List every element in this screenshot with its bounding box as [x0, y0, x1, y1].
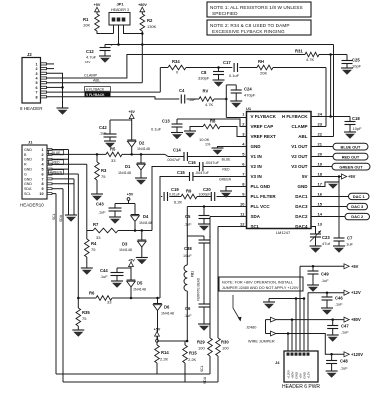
- svg-text:10K: 10K: [83, 23, 90, 28]
- svg-text:DAC 1: DAC 1: [353, 194, 366, 199]
- svg-text:R8: R8: [210, 119, 216, 124]
- svg-text:+5V: +5V: [94, 3, 101, 7]
- svg-text:5: 5: [41, 168, 43, 172]
- svg-text:.0047uF: .0047uF: [205, 161, 220, 165]
- svg-text:CLAMP: CLAMP: [292, 124, 308, 129]
- svg-text:+12V: +12V: [306, 371, 310, 379]
- svg-text:V3 IN: V3 IN: [251, 174, 262, 179]
- svg-text:NOTE 1: ALL RESISTORS 1/8 W U: NOTE 1: ALL RESISTORS 1/8 W UNLESS: [210, 5, 303, 10]
- svg-text:SCL: SCL: [24, 192, 31, 196]
- svg-text:130K: 130K: [147, 24, 157, 29]
- svg-text:GND: GND: [24, 168, 32, 172]
- svg-text:VREF REXT: VREF REXT: [251, 134, 277, 139]
- svg-text:4.7K: 4.7K: [205, 102, 214, 107]
- svg-text:C4: C4: [179, 88, 185, 93]
- svg-text:DAC 3: DAC 3: [351, 204, 364, 209]
- svg-text:13: 13: [318, 221, 323, 226]
- svg-text:.1uF: .1uF: [98, 211, 106, 215]
- svg-text:330pF: 330pF: [198, 76, 210, 81]
- svg-text:J4: J4: [275, 360, 280, 365]
- svg-text:.1uF: .1uF: [99, 132, 107, 136]
- svg-text:23: 23: [318, 121, 323, 126]
- svg-text:+12V: +12V: [351, 290, 361, 295]
- svg-text:WIRE JUMPER: WIRE JUMPER: [248, 340, 275, 344]
- svg-text:10uF: 10uF: [183, 254, 192, 258]
- svg-text:33: 33: [107, 300, 112, 305]
- svg-text:CLAMP: CLAMP: [84, 74, 98, 78]
- svg-text:12: 12: [240, 221, 245, 226]
- svg-text:6: 6: [41, 172, 43, 176]
- svg-text:C15: C15: [177, 170, 185, 175]
- svg-text:ABL: ABL: [298, 134, 307, 139]
- svg-text:75: 75: [91, 247, 96, 252]
- svg-text:SCL: SCL: [200, 365, 204, 372]
- svg-text:4.7uF: 4.7uF: [86, 55, 97, 60]
- svg-text:2.2K: 2.2K: [188, 357, 197, 362]
- svg-text:R14: R14: [161, 350, 169, 355]
- svg-text:FB1: FB1: [191, 271, 195, 277]
- svg-text:C17: C17: [223, 60, 231, 65]
- svg-text:C49: C49: [321, 272, 329, 277]
- svg-text:10.0K: 10.0K: [199, 137, 210, 142]
- svg-text:10pF: 10pF: [353, 126, 363, 131]
- svg-text:15: 15: [318, 201, 323, 206]
- svg-text:8: 8: [41, 182, 43, 186]
- svg-text:J1: J1: [28, 140, 33, 145]
- svg-text:1N4148: 1N4148: [137, 147, 150, 151]
- svg-text:C19: C19: [171, 187, 179, 192]
- svg-text:GREEN: GREEN: [219, 178, 232, 182]
- svg-text:0.01uF: 0.01uF: [169, 192, 180, 196]
- svg-text:21: 21: [318, 141, 323, 146]
- svg-text:DAC1: DAC1: [295, 194, 308, 199]
- svg-text:20K: 20K: [260, 71, 267, 76]
- svg-text:RED: RED: [222, 168, 230, 172]
- svg-text:22: 22: [318, 131, 323, 136]
- svg-text:GREEN OUT: GREEN OUT: [339, 164, 363, 169]
- svg-text:R34: R34: [172, 59, 180, 64]
- svg-text:RED OUT: RED OUT: [342, 154, 360, 159]
- svg-text:.0047uF: .0047uF: [167, 158, 182, 162]
- svg-text:FERRITE BEAD: FERRITE BEAD: [197, 277, 201, 301]
- svg-text:24: 24: [318, 111, 323, 116]
- svg-text:D5: D5: [137, 281, 143, 286]
- svg-text:+: +: [111, 44, 113, 48]
- svg-text:R5: R5: [110, 147, 116, 152]
- svg-text:C23: C23: [322, 235, 330, 240]
- svg-text:C14: C14: [173, 148, 181, 153]
- svg-text:R9: R9: [186, 189, 192, 194]
- svg-text:ABL: ABL: [93, 78, 100, 82]
- svg-text:DAC4: DAC4: [295, 224, 308, 229]
- svg-text:H FLYBACK: H FLYBACK: [86, 87, 105, 91]
- svg-text:3: 3: [41, 158, 43, 162]
- svg-text:V2 OUT: V2 OUT: [291, 154, 308, 159]
- svg-text:C12: C12: [86, 49, 94, 54]
- svg-text:RV: RV: [203, 89, 209, 94]
- svg-text:GND: GND: [298, 184, 309, 189]
- svg-text:R6: R6: [89, 291, 95, 296]
- svg-text:.1uF: .1uF: [341, 331, 349, 335]
- svg-text:1: 1: [41, 148, 43, 152]
- svg-text:R15: R15: [189, 351, 197, 356]
- svg-text:R31: R31: [295, 49, 303, 54]
- svg-text:.1uF: .1uF: [340, 367, 348, 371]
- svg-text:V1 IN: V1 IN: [251, 154, 262, 159]
- svg-text:1N4148: 1N4148: [133, 288, 146, 292]
- svg-text:HEADER10: HEADER10: [20, 203, 44, 208]
- svg-text:C46: C46: [335, 296, 343, 301]
- svg-text:6: 6: [35, 86, 37, 90]
- svg-text:75: 75: [82, 316, 87, 321]
- svg-text:V1 OUT: V1 OUT: [291, 144, 308, 149]
- svg-text:7: 7: [41, 177, 43, 181]
- svg-text:.1uF: .1uF: [345, 242, 354, 247]
- svg-text:J2480: J2480: [246, 326, 256, 330]
- svg-text:10: 10: [240, 201, 245, 206]
- svg-text:20: 20: [318, 151, 323, 156]
- svg-text:HEADER 3: HEADER 3: [111, 8, 129, 12]
- svg-text:4.7K: 4.7K: [306, 57, 315, 62]
- svg-text:.0047uF: .0047uF: [195, 171, 210, 175]
- svg-text:C8: C8: [201, 70, 207, 75]
- svg-text:GND: GND: [24, 158, 32, 162]
- svg-text:V FLYBACK: V FLYBACK: [251, 114, 277, 119]
- svg-text:D4: D4: [143, 214, 149, 219]
- svg-text:JUMPER J2480 AND DO NOT APPLY: JUMPER J2480 AND DO NOT APPLY +120V: [222, 286, 299, 290]
- svg-text:C24: C24: [244, 87, 252, 92]
- svg-text:8 HEADER: 8 HEADER: [20, 106, 43, 111]
- svg-text:C44: C44: [100, 268, 108, 273]
- svg-text:PLL FILTER: PLL FILTER: [251, 194, 277, 199]
- svg-text:C6: C6: [185, 306, 191, 311]
- svg-text:9: 9: [41, 187, 43, 191]
- svg-text:+80V: +80V: [138, 3, 147, 7]
- svg-text:GND: GND: [251, 144, 262, 149]
- svg-text:10: 10: [39, 192, 43, 196]
- svg-text:R29: R29: [197, 340, 205, 345]
- svg-text:R35: R35: [82, 310, 90, 315]
- svg-text:47uf: 47uf: [322, 241, 331, 246]
- svg-text:17: 17: [318, 181, 323, 186]
- svg-text:C38: C38: [184, 246, 192, 251]
- svg-text:1N4148: 1N4148: [119, 248, 132, 252]
- svg-text:RH: RH: [258, 59, 264, 64]
- svg-text:DAC 2: DAC 2: [351, 214, 364, 219]
- svg-text:SDA: SDA: [251, 214, 261, 219]
- svg-text:R30: R30: [221, 340, 229, 345]
- svg-text:PLL GND: PLL GND: [251, 184, 271, 189]
- svg-text:1N4148: 1N4148: [161, 312, 174, 316]
- svg-text:5: 5: [35, 81, 37, 85]
- svg-text:2.2K: 2.2K: [160, 357, 169, 362]
- svg-text:C47: C47: [341, 324, 349, 329]
- svg-text:+5V: +5V: [154, 327, 161, 331]
- svg-text:.1uF: .1uF: [335, 303, 343, 307]
- svg-text:R2: R2: [147, 18, 153, 23]
- svg-text:7: 7: [35, 91, 37, 95]
- svg-text:D6: D6: [164, 305, 170, 310]
- svg-text:R1: R1: [83, 17, 89, 22]
- svg-text:SDA: SDA: [24, 187, 32, 191]
- svg-text:HEADER 6 PWR: HEADER 6 PWR: [282, 384, 320, 390]
- svg-text:EXCESSIVE FLYBACK RINGING: EXCESSIVE FLYBACK RINGING: [212, 29, 285, 34]
- svg-text:DAC3: DAC3: [295, 204, 308, 209]
- svg-text:C7: C7: [347, 236, 353, 241]
- svg-text:.1uF: .1uF: [184, 314, 192, 318]
- svg-text:75: 75: [101, 174, 106, 179]
- svg-text:R: R: [24, 163, 27, 167]
- svg-text:SPECIFIED: SPECIFIED: [212, 11, 238, 16]
- svg-text:VREF CAP: VREF CAP: [251, 124, 274, 129]
- svg-text:1N4148: 1N4148: [139, 221, 152, 225]
- svg-text:16: 16: [318, 191, 323, 196]
- svg-text:D2: D2: [139, 141, 145, 146]
- svg-text:2: 2: [41, 153, 43, 157]
- svg-text:SCL: SCL: [251, 224, 260, 229]
- svg-text:SCL: SCL: [52, 213, 56, 220]
- svg-text:2: 2: [35, 67, 37, 71]
- svg-text:V3 OUT: V3 OUT: [291, 164, 308, 169]
- svg-text:DAC2: DAC2: [295, 214, 308, 219]
- svg-text:C5: C5: [185, 214, 191, 219]
- svg-text:16V: 16V: [85, 60, 90, 64]
- svg-text:470pF: 470pF: [244, 93, 256, 98]
- svg-text:5V: 5V: [302, 174, 308, 179]
- svg-text:33: 33: [96, 235, 101, 240]
- svg-text:R4: R4: [91, 241, 97, 246]
- svg-text:10pF: 10pF: [352, 64, 362, 69]
- svg-text:100: 100: [222, 346, 229, 351]
- svg-text:R3: R3: [101, 168, 107, 173]
- svg-text:PLL VCC: PLL VCC: [251, 204, 271, 209]
- svg-text:BLUE OUT: BLUE OUT: [341, 144, 362, 149]
- svg-text:NOTE: FOR +80V OPERATION, INST: NOTE: FOR +80V OPERATION, INSTALL: [222, 280, 293, 284]
- svg-text:R7: R7: [93, 222, 99, 227]
- svg-text:D3: D3: [122, 242, 128, 247]
- svg-text:3: 3: [35, 72, 37, 76]
- svg-text:+5V: +5V: [128, 110, 135, 114]
- svg-text:+120V: +120V: [351, 352, 363, 357]
- svg-text:C20: C20: [203, 187, 211, 192]
- svg-text:BLUE: BLUE: [222, 158, 232, 162]
- svg-text:C16: C16: [188, 160, 196, 165]
- svg-text:NOTE 2: R34 & C8 USED TO DAMP: NOTE 2: R34 & C8 USED TO DAMP: [210, 23, 290, 28]
- svg-text:SDA: SDA: [59, 214, 63, 222]
- svg-text:C18: C18: [352, 116, 360, 121]
- svg-text:1N4148: 1N4148: [118, 171, 131, 175]
- svg-text:GND: GND: [24, 148, 32, 152]
- svg-text:1%: 1%: [205, 143, 211, 147]
- svg-text:14: 14: [318, 211, 323, 216]
- svg-text:C48: C48: [340, 359, 348, 364]
- svg-text:JP1: JP1: [116, 2, 124, 7]
- svg-text:C25: C25: [352, 58, 360, 63]
- svg-text:+5V: +5V: [128, 259, 135, 263]
- svg-text:33: 33: [111, 158, 116, 163]
- svg-text:U1: U1: [246, 106, 252, 111]
- svg-text:6.2K: 6.2K: [174, 200, 183, 205]
- svg-text:LM1247: LM1247: [276, 230, 291, 235]
- svg-text:100: 100: [198, 346, 205, 351]
- svg-text:C42: C42: [99, 125, 107, 130]
- svg-text:0.1uF: 0.1uF: [151, 127, 162, 132]
- svg-text:V2 IN: V2 IN: [251, 164, 262, 169]
- svg-text:C43: C43: [96, 202, 104, 207]
- svg-text:18: 18: [318, 171, 323, 176]
- svg-text:SDA: SDA: [203, 376, 207, 384]
- svg-text:1: 1: [35, 62, 37, 66]
- svg-text:+80V: +80V: [351, 317, 361, 322]
- svg-text:GND: GND: [24, 182, 32, 186]
- svg-text:1000pF: 1000pF: [199, 192, 211, 196]
- svg-text:J2: J2: [27, 52, 32, 57]
- svg-text:+5V: +5V: [127, 193, 134, 197]
- svg-text:C13: C13: [162, 119, 170, 124]
- svg-text:H FLYBACK: H FLYBACK: [282, 114, 308, 119]
- svg-text:.1uF: .1uF: [100, 275, 108, 279]
- svg-text:19: 19: [318, 161, 323, 166]
- svg-text:+5V: +5V: [348, 174, 356, 179]
- svg-text:+5V: +5V: [351, 264, 359, 269]
- svg-text:.1uF: .1uF: [321, 279, 329, 283]
- svg-text:GND: GND: [24, 177, 32, 181]
- svg-text:D1: D1: [125, 164, 131, 169]
- svg-text:.1uF: .1uF: [184, 223, 192, 227]
- svg-text:0.1uF: 0.1uF: [229, 73, 240, 78]
- svg-text:8: 8: [35, 95, 37, 99]
- svg-text:G: G: [24, 172, 27, 176]
